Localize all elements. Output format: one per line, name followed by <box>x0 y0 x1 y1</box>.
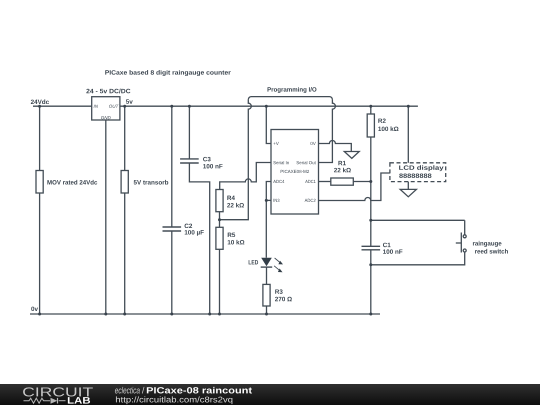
junction: 0v rail / R5 <box>218 313 221 316</box>
wire: MOV down to 0v rail <box>39 193 41 314</box>
wire: junction to reed switch (top) <box>371 219 465 221</box>
junction: 5v rail / transorb <box>123 105 126 108</box>
junction: 0v rail / C2 <box>170 313 173 316</box>
wire: bracket right vertical with hop over 5v rail, down to Serial Out <box>319 100 336 163</box>
MOV varistor <box>36 171 43 194</box>
wire: 5v down to C3 <box>188 106 190 159</box>
wire: +V pin to 5v rail <box>266 106 271 143</box>
junction: 5v rail / C2 <box>170 105 173 108</box>
junction: R1/R2 <box>369 180 372 183</box>
LCD display (dashed block) <box>390 163 446 182</box>
wire: 5v down to transorb <box>124 106 126 170</box>
resistor R5 10k <box>216 227 223 249</box>
junction: C1 column / switch return <box>369 263 372 266</box>
wire: 5v rail down to R2 <box>370 106 372 114</box>
wire: switch stub down <box>464 220 466 235</box>
junction: 5v rail / C3 <box>188 105 191 108</box>
resistor R2 100k <box>367 114 374 137</box>
node: 5v label <box>126 99 133 103</box>
wire: 24V top rail (left of DC/DC) <box>33 105 92 107</box>
wire: C1 down to 0v rail <box>370 250 372 314</box>
junction: 0v rail / C3 branch <box>208 313 211 316</box>
transorb (5V transorb) <box>121 171 128 194</box>
wire: IN3 pin left <box>266 199 271 201</box>
footer text <box>115 387 252 404</box>
node: 0v label <box>31 307 38 311</box>
wire: 5v top rail (right of DC/DC) <box>120 105 418 107</box>
wire: junction down to LED <box>265 200 267 257</box>
junction: 0v rail / transorb <box>123 313 126 316</box>
IC U1 PICAXE08-M2 <box>271 130 319 215</box>
junction: ADC4-IN3 column <box>265 199 268 202</box>
capacitor C2 100uF <box>163 226 182 228</box>
wire: 0V pin right with hop, down to ground <box>319 141 352 152</box>
wire: LED to R3 <box>266 267 268 284</box>
junction: 0v rail / C1 <box>369 313 372 316</box>
junction: C1 top / reed switch <box>369 219 372 222</box>
capacitor C1 100nF <box>362 245 381 247</box>
wire: ADC2 right with hop, up to LCD <box>319 173 390 201</box>
wire: C3 down, right, down to 0v rail <box>189 163 209 314</box>
wire: DC/DC GND pin down to 0v rail <box>105 120 107 314</box>
wire: R3 down to 0v rail <box>266 306 268 314</box>
wire: R1 to R2 junction <box>353 181 371 183</box>
junction: 0v rail / MOV <box>38 313 41 316</box>
wire: Serial In from IC, left, down, left with hop, to R4 top <box>220 163 271 190</box>
wire: 24Vdc down to MOV <box>39 106 41 170</box>
programming I/O bracket <box>268 87 317 93</box>
ground (LCD) <box>400 189 416 196</box>
wire: bracket left vertical with hop over 5v rail, down to R4/R5 junction <box>220 100 252 220</box>
wire: 5v rail down to LCD display <box>407 106 409 163</box>
CircuitLab logo <box>23 387 93 403</box>
resistor R4 22k <box>216 190 223 212</box>
wire: ADC4 pin left and down <box>266 182 271 201</box>
resistor R3 270 <box>263 284 270 306</box>
node: 24Vdc label <box>31 99 49 104</box>
switch SW1 raingauge reed switch <box>463 235 466 238</box>
wire: LCD down to ground <box>407 182 409 190</box>
resistor R1 22k (horizontal) <box>334 161 351 172</box>
wire: R4 to R5 <box>219 212 221 228</box>
LED light arrows <box>274 258 281 271</box>
junction: 24V rail / MOV <box>38 105 41 108</box>
wire: C2 down to 0v rail <box>171 231 173 314</box>
logo resistor + diode glyph <box>24 398 66 404</box>
title <box>105 70 230 76</box>
LED D1 <box>249 260 258 264</box>
wire: 5v down to C2 <box>171 106 173 227</box>
wire: 0v bottom rail <box>30 313 380 315</box>
wire: R5 down to 0v rail <box>219 249 221 314</box>
junction: 5v rail / LCD feed <box>407 105 410 108</box>
wire: R2 down through R1 junction to C1/switch junction <box>370 137 372 246</box>
wire: ADC1 to R1 <box>319 181 331 183</box>
ground (0V) <box>344 152 359 159</box>
capacitor C3 100nF <box>180 158 199 160</box>
junction: 0v rail / R3 <box>265 313 268 316</box>
junction: 5v rail / IC +V <box>265 105 268 108</box>
dc-dc converter U? 24 - 5v DC/DC <box>92 97 120 120</box>
wire: switch bottom back to C1 column <box>371 252 465 265</box>
wire: transorb down to 0v rail <box>124 193 126 314</box>
junction: 0v rail / DC-DC GND <box>104 313 107 316</box>
junction: 5v rail / R2 <box>369 105 372 108</box>
junction: R4/R5/programming bracket <box>218 218 221 221</box>
